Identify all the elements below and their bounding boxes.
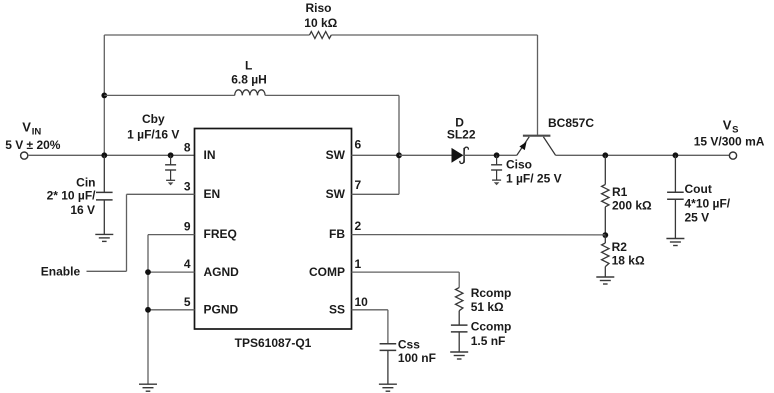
- wire: EN drop to Enable: [126, 194, 128, 271]
- wire: SS pin horizontal: [352, 309, 388, 311]
- node: FB/R2 junction: [602, 232, 608, 238]
- svg-text:Enable: Enable: [41, 265, 81, 279]
- wire: gnd rail vertical x=148: [147, 235, 149, 385]
- svg-text:16 V: 16 V: [70, 203, 95, 217]
- svg-text:Ccomp: Ccomp: [471, 320, 512, 334]
- ground: under Ccomp: [450, 352, 468, 359]
- wire: COMP pin horizontal: [352, 271, 460, 273]
- svg-text:Riso: Riso: [305, 1, 331, 15]
- svg-text:SL22: SL22: [447, 128, 476, 142]
- svg-text:10: 10: [355, 295, 369, 309]
- svg-text:Rcomp: Rcomp: [471, 286, 512, 300]
- svg-text:7: 7: [355, 178, 362, 192]
- capacitor Ccomp: [451, 325, 468, 352]
- svg-text:1 µF/ 25 V: 1 µF/ 25 V: [506, 172, 562, 186]
- wire: AGND pin: [148, 271, 195, 273]
- wire: SW junction to diode anode: [399, 154, 452, 156]
- wire: VIN rail vertical x=104: [103, 35, 105, 155]
- svg-text:4*10 µF/: 4*10 µF/: [685, 197, 731, 211]
- capacitor Cin: [96, 155, 113, 234]
- ground: under Cout: [666, 239, 684, 246]
- svg-text:BC857C: BC857C: [548, 116, 594, 130]
- wire: SW rail vertical x=399: [398, 95, 400, 194]
- wire: SW pin 6 to rail: [352, 154, 400, 156]
- wire: FB to divider: [352, 234, 606, 236]
- svg-text:1.5 nF: 1.5 nF: [471, 334, 506, 348]
- svg-text:4: 4: [184, 257, 191, 271]
- svg-text:100 nF: 100 nF: [398, 351, 436, 365]
- wire: SS drop: [387, 310, 389, 344]
- capacitor Css: [380, 344, 397, 384]
- svg-text:1: 1: [355, 257, 362, 271]
- svg-text:25 V: 25 V: [685, 211, 710, 225]
- terminal VS: [729, 152, 736, 159]
- svg-text:6: 6: [355, 137, 362, 151]
- node: VIN/Cin junction: [101, 152, 107, 158]
- node: Ciso junction: [494, 152, 500, 158]
- svg-text:FREQ: FREQ: [204, 227, 237, 241]
- wire: Riso top rail left segment: [104, 34, 309, 36]
- svg-text:51 kΩ: 51 kΩ: [471, 300, 504, 314]
- svg-text:Css: Css: [398, 338, 420, 352]
- ground: under R2: [596, 277, 614, 284]
- svg-text:IN: IN: [204, 148, 216, 162]
- node: Cout junction: [673, 152, 679, 158]
- resistor Riso: [310, 32, 332, 39]
- node: L junction on VIN rail: [101, 93, 107, 99]
- svg-text:8: 8: [184, 141, 191, 155]
- resistor R2: [602, 235, 609, 277]
- capacitor Cout: [667, 155, 684, 238]
- wire: Riso top rail right segment: [331, 34, 537, 36]
- svg-text:SW: SW: [326, 148, 346, 162]
- svg-text:Cby: Cby: [142, 112, 165, 126]
- terminal VIN: [21, 152, 28, 159]
- svg-text:L: L: [245, 59, 252, 73]
- wire: inductor row left: [104, 94, 234, 96]
- svg-text:18 kΩ: 18 kΩ: [612, 253, 645, 267]
- op-amp U1 outline: IC TPS61087-Q1: [195, 129, 352, 330]
- wire: Enable lead: [87, 270, 127, 272]
- resistor R1: [602, 155, 609, 235]
- svg-text:FB: FB: [329, 227, 345, 241]
- svg-text:Cout: Cout: [685, 182, 712, 196]
- node: AGND junction: [145, 269, 151, 275]
- svg-text:3: 3: [184, 180, 191, 194]
- wire: diode cathode to emitter: [464, 154, 517, 156]
- inductor L: [235, 90, 265, 96]
- wire: SW pin 7 to rail: [352, 193, 400, 195]
- node: Cby junction: [168, 152, 174, 158]
- wire: FREQ to gnd rail: [148, 234, 195, 236]
- svg-text:2: 2: [355, 219, 362, 233]
- transistor Q1 BC857C: [517, 136, 556, 156]
- wire: COMP drop: [458, 272, 460, 288]
- svg-text:9: 9: [184, 220, 191, 234]
- ground: mini under Ciso: [492, 180, 501, 185]
- node: R1 junction: [602, 152, 608, 158]
- svg-text:R2: R2: [612, 240, 628, 254]
- svg-text:15 V/300 mA: 15 V/300 mA: [694, 134, 765, 148]
- node: PGND junction: [145, 307, 151, 313]
- svg-text:10 kΩ: 10 kΩ: [304, 16, 337, 30]
- svg-text:2* 10 µF/: 2* 10 µF/: [47, 188, 97, 202]
- diode D SL22: [452, 147, 469, 163]
- svg-text:V: V: [22, 120, 31, 135]
- ground: under Css: [379, 384, 397, 391]
- svg-text:200 kΩ: 200 kΩ: [612, 198, 652, 212]
- capacitor Cby: [165, 155, 176, 180]
- wire: EN pin horizontal: [127, 193, 195, 195]
- ground: mini under Cby: [166, 180, 175, 185]
- svg-text:SS: SS: [329, 303, 345, 317]
- svg-text:PGND: PGND: [204, 303, 239, 317]
- svg-text:1 µF/16 V: 1 µF/16 V: [127, 127, 179, 141]
- svg-text:V: V: [723, 118, 732, 133]
- wire: base drop from Riso to Q1: [537, 35, 539, 135]
- svg-text:5 V ± 20%: 5 V ± 20%: [5, 138, 61, 152]
- wire: PGND pin: [148, 309, 195, 311]
- svg-text:Ciso: Ciso: [506, 157, 532, 171]
- svg-text:COMP: COMP: [309, 265, 345, 279]
- ground: under gnd rail: [139, 384, 157, 391]
- svg-text:IN: IN: [32, 126, 42, 137]
- node: SW junction: [396, 152, 402, 158]
- wire: inductor row right: [265, 94, 399, 96]
- svg-text:EN: EN: [204, 187, 221, 201]
- ground: under Cin: [95, 234, 113, 241]
- wire: collector to VS rail: [556, 154, 730, 156]
- resistor Rcomp: [456, 288, 463, 326]
- wire: VIN to IN pin: [28, 154, 195, 156]
- svg-text:SW: SW: [326, 187, 346, 201]
- svg-text:5: 5: [184, 295, 191, 309]
- svg-text:6.8 µH: 6.8 µH: [231, 72, 267, 86]
- svg-text:AGND: AGND: [204, 265, 240, 279]
- svg-text:TPS61087-Q1: TPS61087-Q1: [235, 336, 312, 350]
- svg-text:R1: R1: [612, 185, 628, 199]
- capacitor Ciso: [491, 155, 502, 180]
